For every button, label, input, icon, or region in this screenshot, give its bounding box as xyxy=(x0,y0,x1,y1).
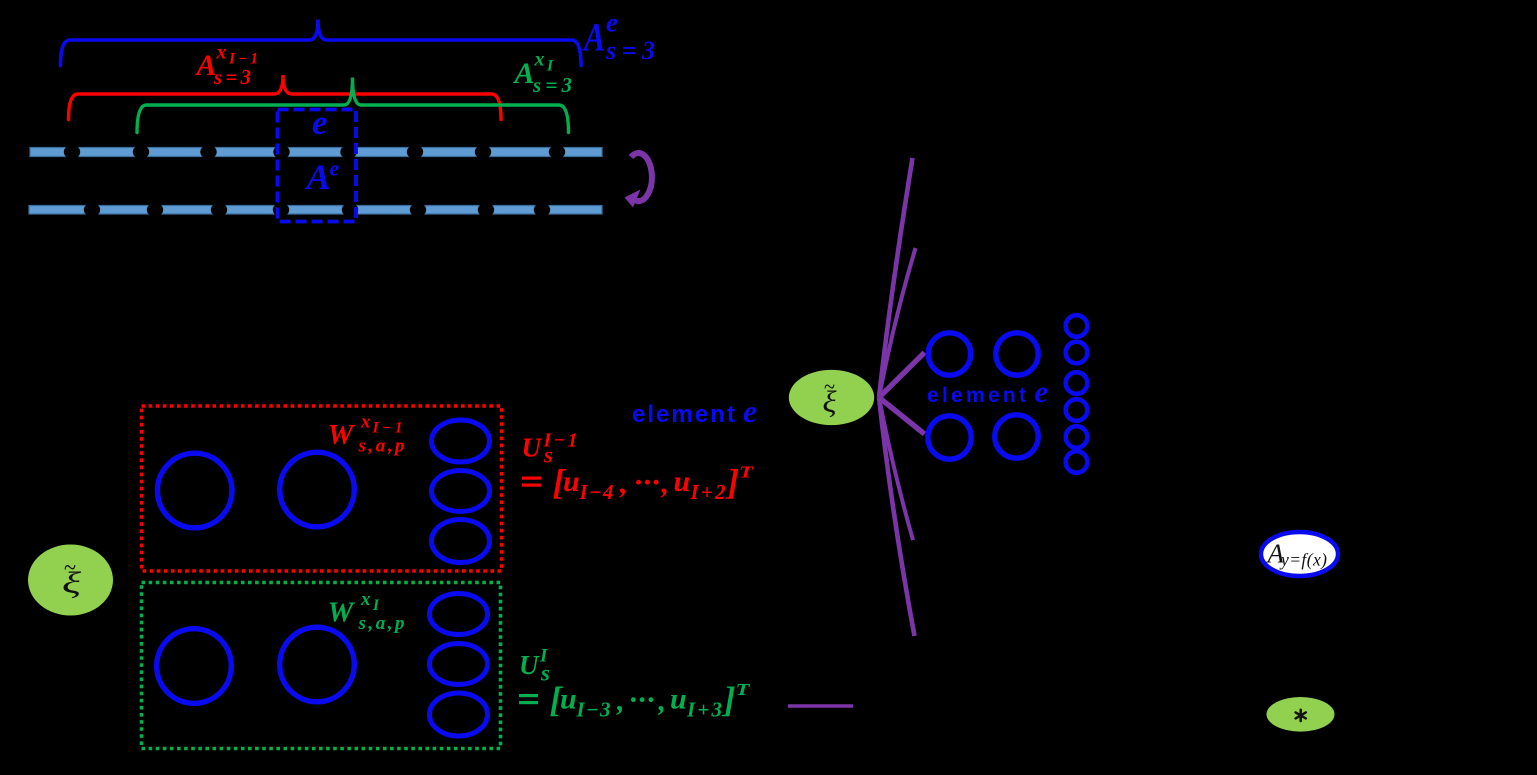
label W^x(I-1)_s,a,p (red) xyxy=(328,412,405,457)
svg-text:u: u xyxy=(674,465,691,498)
purple stub to circle 1 xyxy=(879,353,925,398)
purple fan line 6 (to bottom) xyxy=(879,398,915,637)
svg-text:s=3: s=3 xyxy=(532,73,572,97)
svg-text:T: T xyxy=(739,463,754,482)
label A^e_s=3 (blue) xyxy=(582,8,655,66)
label W^x(I)_s,a,p (green) xyxy=(328,589,405,634)
svg-text:s=3: s=3 xyxy=(605,36,655,65)
svg-text:e: e xyxy=(606,8,618,38)
network circle bottom-right xyxy=(995,415,1038,458)
svg-text:element: element xyxy=(632,401,735,428)
element e dashed box xyxy=(278,110,357,222)
purple connector line (bottom middle) xyxy=(788,704,853,707)
label U_s^(I-1) (red) xyxy=(522,430,754,505)
svg-text:s=3: s=3 xyxy=(213,65,251,89)
activation ellipse A_y=f(x) xyxy=(1261,532,1338,576)
purple fan line 2 xyxy=(879,248,916,398)
svg-text:~: ~ xyxy=(64,553,76,582)
svg-text:I+2: I+2 xyxy=(690,480,727,504)
green dotted box W^x(I) xyxy=(142,583,501,749)
svg-text:]: ] xyxy=(722,680,736,720)
svg-text:A: A xyxy=(582,15,605,59)
svg-text:element: element xyxy=(927,384,1026,407)
label A^x(I)_s=3 (green) xyxy=(513,49,573,98)
svg-text:W: W xyxy=(328,597,356,629)
red box: big circle 2 xyxy=(280,452,355,527)
svg-text:s,a,p: s,a,p xyxy=(358,613,405,634)
svg-text:W: W xyxy=(328,419,356,451)
svg-text:x: x xyxy=(534,49,545,71)
mesh top row bar xyxy=(30,148,602,157)
svg-text:~: ~ xyxy=(824,375,835,401)
convolution ellipse (green, asterisk) xyxy=(1267,697,1335,732)
red dotted box W^x(I-1) xyxy=(142,406,502,571)
purple fan line 1 (to top) xyxy=(879,158,913,398)
svg-text:,: , xyxy=(661,467,670,500)
svg-text:T: T xyxy=(736,680,751,699)
green box: ellipse column xyxy=(430,594,488,737)
svg-text:u: u xyxy=(563,465,580,498)
svg-text:u: u xyxy=(670,683,687,716)
network circle top-right xyxy=(996,333,1038,375)
svg-text:U: U xyxy=(519,650,540,680)
svg-text:e: e xyxy=(743,393,757,429)
blue overbrace A^e_s=3 xyxy=(61,20,582,66)
svg-text:U: U xyxy=(522,433,543,463)
svg-text:I: I xyxy=(372,597,380,614)
mesh bottom row nodes xyxy=(84,203,550,217)
svg-text:I−4: I−4 xyxy=(579,480,614,504)
network circle top-left xyxy=(928,333,970,375)
svg-text:I+3: I+3 xyxy=(686,698,722,722)
svg-text:y=f(x): y=f(x) xyxy=(1279,550,1327,570)
green overbrace A^x(I)_s=3 xyxy=(137,78,569,133)
network circle bottom-left xyxy=(928,416,971,459)
svg-text:I−3: I−3 xyxy=(576,698,611,722)
red overbrace A^x(I-1)_s=3 xyxy=(69,75,502,120)
xi tilde ellipse (left, green) xyxy=(28,545,113,616)
mesh top row nodes xyxy=(64,145,565,159)
svg-text:s: s xyxy=(540,661,550,686)
svg-text:,: , xyxy=(658,685,667,718)
svg-text:]: ] xyxy=(725,462,739,502)
xi tilde ellipse (right, green) xyxy=(789,370,874,425)
svg-text:u: u xyxy=(560,683,577,716)
red box: ellipse column xyxy=(432,420,490,563)
svg-text:A: A xyxy=(305,157,331,197)
periodic wrap arrow (purple) xyxy=(631,153,652,201)
svg-text:e: e xyxy=(1035,374,1049,409)
svg-text:e: e xyxy=(330,156,340,181)
green box: big circle 2 xyxy=(280,627,355,702)
svg-text:s: s xyxy=(543,443,553,468)
svg-text:x: x xyxy=(360,589,371,610)
green box: big circle 1 xyxy=(157,629,232,704)
svg-text:A: A xyxy=(513,57,535,90)
purple stub to circle 2 xyxy=(879,398,925,435)
svg-text:,: , xyxy=(616,685,625,718)
svg-text:I−1: I−1 xyxy=(372,420,403,437)
svg-text:,: , xyxy=(619,467,628,500)
purple fan line 5 xyxy=(879,398,913,541)
mesh bottom row bar xyxy=(29,206,602,215)
svg-text:x: x xyxy=(360,412,371,433)
svg-text:x: x xyxy=(216,42,227,64)
svg-text:e: e xyxy=(312,103,328,142)
label A^x(I-1)_s=3 (red) xyxy=(195,42,259,90)
svg-text:I: I xyxy=(546,58,554,75)
red box: big circle 1 xyxy=(157,453,232,528)
label U_s^I (green) xyxy=(519,646,750,722)
output node column xyxy=(1066,315,1088,473)
svg-text:s,a,p: s,a,p xyxy=(358,436,405,457)
